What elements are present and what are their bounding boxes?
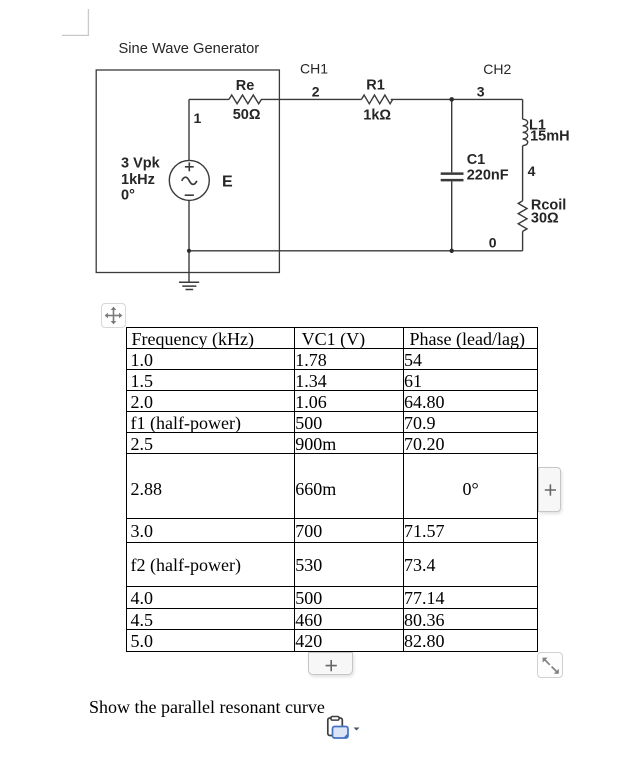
expand table button (537, 652, 563, 678)
junction source bottom (187, 249, 191, 253)
add-column button (538, 467, 562, 512)
source minus sign (185, 194, 194, 196)
wire C1 branch upper (451, 99, 453, 172)
wire bottom rail (189, 250, 523, 252)
resistor Re (229, 95, 261, 104)
wire source bottom (188, 200, 190, 250)
pasted page (333, 727, 349, 739)
svg-text:E: E (222, 174, 233, 191)
resistor Rcoil (518, 201, 527, 232)
source plus sign (185, 162, 194, 171)
wire from source top to top rail (188, 99, 190, 160)
wire top rail left segment (189, 98, 229, 100)
wire Rcoil to bottom rail (522, 231, 524, 251)
svg-text:R1: R1 (366, 77, 385, 93)
resistor R1 (362, 95, 393, 104)
junction node 2/C1 top (449, 97, 454, 102)
add-row button (308, 652, 352, 675)
clipboard clip (331, 717, 339, 721)
svg-text:3: 3 (477, 83, 485, 99)
measurement table (126, 327, 539, 652)
svg-text:0: 0 (489, 235, 497, 251)
svg-text:0°: 0° (121, 187, 135, 203)
svg-text:CH1: CH1 (300, 61, 328, 77)
circuit schematic SVG (0, 0, 644, 300)
wire R1 to right corner (391, 98, 523, 100)
ground (179, 282, 199, 289)
svg-text:30Ω: 30Ω (531, 211, 559, 227)
svg-text:4: 4 (528, 163, 536, 179)
svg-text:50Ω: 50Ω (233, 107, 261, 123)
page corner mark (62, 9, 88, 35)
clipboard body (328, 718, 343, 736)
table move handle (101, 303, 126, 328)
svg-text:1kHz: 1kHz (121, 172, 155, 188)
svg-text:CH2: CH2 (483, 61, 511, 77)
inductor L1 (523, 119, 528, 145)
svg-text:C1: C1 (467, 152, 486, 168)
wire L1 to Rcoil (522, 146, 524, 201)
wire C1 branch lower (451, 181, 453, 251)
paste options icon (325, 714, 365, 744)
caption text (89, 697, 325, 718)
wire right branch top (522, 99, 524, 119)
svg-text:15mH: 15mH (530, 129, 570, 145)
source E circle (169, 160, 209, 200)
svg-text:2: 2 (312, 83, 320, 99)
svg-text:1kΩ: 1kΩ (363, 108, 391, 124)
source sine symbol (182, 177, 197, 184)
capacitor C1 plates (441, 174, 464, 181)
junction C1 bottom (450, 249, 454, 253)
svg-text:1: 1 (194, 110, 202, 126)
generator box (96, 70, 279, 273)
svg-text:220nF: 220nF (467, 167, 509, 183)
svg-text:Re: Re (236, 78, 255, 94)
wire Re to R1 (261, 98, 362, 100)
wire to ground (188, 251, 190, 282)
svg-text:3 Vpk: 3 Vpk (121, 155, 161, 171)
svg-text:Sine Wave Generator: Sine Wave Generator (119, 41, 260, 57)
dropdown arrow (354, 728, 360, 731)
